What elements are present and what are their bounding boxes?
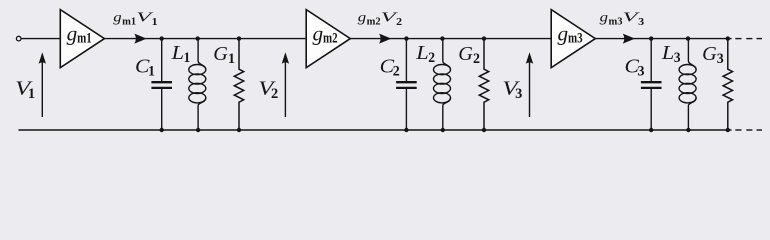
svg-text:g: g — [313, 21, 324, 45]
label L1 — [170, 42, 190, 66]
wire: gm1 output to gm2 input (node V2) — [104, 38, 306, 40]
svg-text:3: 3 — [638, 17, 644, 28]
node dot: C1 top — [160, 36, 164, 40]
label gm3V3 (output current) — [600, 10, 644, 28]
node dot: G2 top — [482, 36, 486, 40]
capacitor C2 — [396, 39, 417, 130]
label V1 — [15, 78, 35, 102]
node dot: L2 top — [440, 36, 444, 40]
amplifier U2 (transconductance gm2) — [306, 10, 350, 68]
node dot: G2 bottom — [482, 128, 486, 132]
wire: input to amp gm1 — [21, 38, 60, 40]
arrow V3 (voltage, pointing up) — [526, 52, 533, 117]
svg-text:G: G — [458, 43, 473, 65]
svg-text:g: g — [113, 10, 121, 25]
svg-text:3: 3 — [515, 86, 522, 102]
node dot: L3 top — [686, 36, 690, 40]
label V2 — [258, 78, 278, 102]
svg-text:1: 1 — [28, 86, 35, 102]
svg-text:m3: m3 — [609, 17, 623, 28]
svg-text:G: G — [702, 43, 717, 65]
svg-text:g: g — [600, 10, 608, 25]
resistor G2 (conductance) — [479, 39, 488, 130]
inductor L2 — [434, 39, 451, 130]
node dot: L3 bottom — [686, 128, 690, 132]
svg-text:3: 3 — [638, 64, 645, 80]
node dot: G3 top — [726, 36, 730, 40]
svg-text:G: G — [213, 43, 228, 65]
svg-text:m1: m1 — [77, 31, 92, 47]
svg-text:3: 3 — [674, 50, 681, 66]
svg-text:g: g — [358, 10, 366, 25]
node dot: G1 top — [237, 36, 241, 40]
wire: dashed continuation of top line — [728, 38, 762, 40]
node dot: C2 top — [404, 36, 408, 40]
current arrow into node 3 — [623, 34, 635, 44]
node dot: G3 bottom — [726, 128, 730, 132]
node dot: L2 bottom — [441, 128, 445, 132]
amplifier U3 (transconductance gm3) — [551, 10, 595, 68]
label V3 — [502, 78, 522, 102]
label C2 — [380, 56, 400, 80]
inductor L3 — [679, 39, 696, 130]
svg-text:2: 2 — [428, 50, 435, 66]
resistor G1 (conductance) — [234, 39, 243, 130]
node dot: L1 top — [196, 36, 200, 40]
svg-text:m3: m3 — [568, 31, 583, 47]
svg-text:2: 2 — [473, 51, 480, 67]
label G1 — [213, 43, 235, 67]
svg-text:g: g — [67, 21, 78, 45]
label G2 — [458, 43, 480, 67]
svg-text:3: 3 — [717, 51, 724, 67]
svg-text:2: 2 — [396, 17, 402, 28]
arrow V1 (voltage, pointing up) — [39, 52, 46, 117]
svg-text:1: 1 — [148, 64, 155, 80]
svg-text:g: g — [558, 21, 569, 45]
input terminal (open circle) — [16, 36, 21, 41]
label gm2V2 (output current) — [358, 10, 402, 28]
svg-text:m2: m2 — [367, 17, 381, 28]
node dot: C3 top — [649, 36, 653, 40]
current arrow into node 1 — [134, 34, 146, 44]
capacitor C1 — [151, 39, 172, 130]
svg-text:m1: m1 — [122, 17, 136, 28]
label gm1 inside amplifier — [67, 21, 92, 46]
label C3 — [625, 56, 645, 80]
label gm2 inside amplifier — [313, 21, 338, 46]
resistor G3 (conductance) — [723, 39, 732, 130]
wire: bottom rail (ground return) — [19, 129, 728, 131]
wire: gm2 output to gm3 input (node V3) — [350, 38, 551, 40]
node dot: L1 bottom — [196, 128, 200, 132]
arrow V2 (voltage, pointing up) — [282, 52, 289, 117]
capacitor C3 — [641, 39, 662, 130]
label L3 — [661, 42, 681, 66]
svg-text:L: L — [170, 42, 184, 64]
node dot: C3 bottom — [649, 128, 653, 132]
current arrow into node 2 — [379, 34, 391, 44]
node dot: G1 bottom — [237, 128, 241, 132]
amplifier U1 (transconductance gm1) — [60, 10, 104, 68]
svg-text:1: 1 — [184, 50, 191, 66]
label gm1V1 (output current) — [113, 10, 157, 28]
svg-text:2: 2 — [393, 64, 400, 80]
label L2 — [415, 42, 435, 66]
wire: gm3 output to G3 node — [595, 38, 728, 40]
node dot: C1 bottom — [160, 128, 164, 132]
svg-text:1: 1 — [152, 17, 158, 28]
svg-text:1: 1 — [228, 51, 235, 67]
svg-text:L: L — [661, 42, 675, 64]
svg-text:m2: m2 — [323, 31, 338, 47]
svg-text:L: L — [415, 42, 429, 64]
inductor L1 — [189, 39, 206, 130]
label gm3 inside amplifier — [558, 21, 583, 46]
label G3 — [702, 43, 724, 67]
wire: dashed continuation of bottom rail — [728, 129, 762, 131]
svg-text:2: 2 — [271, 86, 278, 102]
label C1 — [135, 56, 155, 80]
node dot: C2 bottom — [404, 128, 408, 132]
